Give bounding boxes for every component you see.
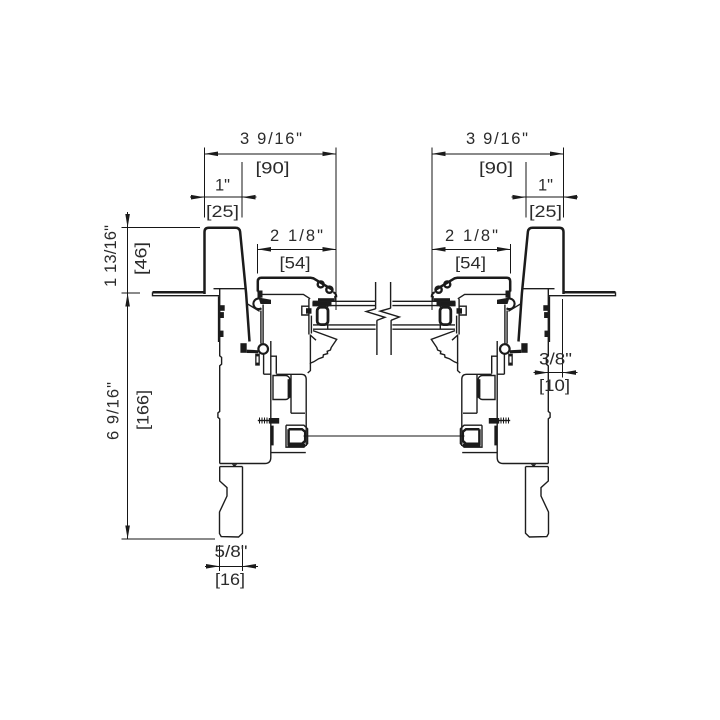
svg-text:1": 1": [215, 177, 230, 195]
svg-text:[16]: [16]: [215, 571, 245, 589]
svg-text:[166]: [166]: [135, 390, 153, 430]
svg-text:5/8": 5/8": [215, 543, 248, 561]
svg-text:[10]: [10]: [539, 377, 570, 395]
svg-text:[54]: [54]: [455, 255, 486, 273]
glass break line right: [390, 282, 392, 308]
svg-text:3/8": 3/8": [539, 351, 572, 369]
svg-text:1": 1": [538, 177, 553, 195]
svg-text:[90]: [90]: [256, 159, 290, 177]
svg-text:[54]: [54]: [280, 255, 311, 273]
svg-text:6 9/16": 6 9/16": [105, 382, 123, 440]
dim 5/8 [16] bottom: [220, 545, 243, 571]
svg-text:[46]: [46]: [133, 242, 151, 275]
svg-text:[25]: [25]: [529, 203, 562, 221]
glass break line left: [375, 282, 377, 309]
svg-text:[25]: [25]: [206, 203, 239, 221]
dim 3/8 [10] right: [562, 299, 564, 378]
svg-text:1 13/16": 1 13/16": [102, 225, 120, 287]
dim 1 13/16 [46] / 6 9/16 [166] vertical: [122, 227, 201, 229]
leader line between keepers: [304, 435, 465, 437]
svg-text:[90]: [90]: [479, 159, 513, 177]
